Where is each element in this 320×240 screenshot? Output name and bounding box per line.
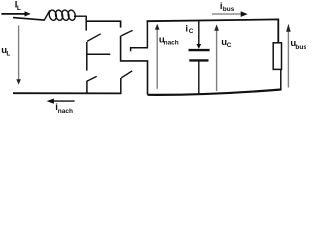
svg-text:L: L <box>17 5 21 12</box>
wire node M1 stub <box>86 53 110 55</box>
switch S4 blade <box>121 71 132 78</box>
wire bus bottom <box>148 90 282 95</box>
switch S4 bottom terminal <box>120 78 122 94</box>
capacitor C bottom plate <box>189 59 208 61</box>
switch S1 bottom terminal / node M1 <box>86 42 88 71</box>
wire bus top <box>147 19 279 42</box>
switch S4 top terminal <box>131 21 148 52</box>
switch S1 blade <box>87 34 101 42</box>
label u_L <box>1 45 10 57</box>
wire coil drop / switch S1 top terminal <box>85 16 87 31</box>
arrow u_bus <box>286 24 291 88</box>
wire resistor bottom lead <box>280 69 282 90</box>
svg-text:bus: bus <box>223 6 235 13</box>
wire bridge top <box>86 21 121 27</box>
svg-text:L: L <box>6 50 10 57</box>
svg-text:nach: nach <box>164 39 179 46</box>
wire source top <box>13 18 44 21</box>
label u_C <box>221 37 232 49</box>
arrow i_C / capacitor top lead <box>196 20 201 48</box>
label u_bus <box>290 38 307 51</box>
label i_nach <box>55 102 73 115</box>
label i_bus <box>220 1 235 13</box>
arrow i_bus <box>212 11 248 17</box>
capacitor C top plate <box>189 49 210 51</box>
svg-text:C: C <box>189 28 194 35</box>
capacitor C bottom lead <box>198 62 200 94</box>
arrow i_nach <box>47 99 75 104</box>
label i_C <box>185 23 193 35</box>
arrow I_L <box>1 11 30 16</box>
svg-text:nach: nach <box>58 108 73 114</box>
arrow u_C <box>214 24 219 91</box>
svg-text:C: C <box>227 42 232 49</box>
resistor R_bus <box>273 43 281 70</box>
inductor L <box>44 9 86 21</box>
arrow u_L <box>16 26 21 85</box>
switch S2 blade <box>121 30 132 35</box>
switch S3 blade <box>87 76 97 81</box>
label I_L <box>15 0 21 12</box>
label u_nach <box>159 34 179 46</box>
svg-text:i: i <box>185 23 188 34</box>
switch S2 bottom terminal / node M2 <box>121 36 148 95</box>
wire source bottom rail <box>13 92 122 94</box>
switch S3 bottom terminal <box>86 81 88 94</box>
arrow u_nach <box>155 24 160 89</box>
svg-text:bus: bus <box>295 44 306 51</box>
